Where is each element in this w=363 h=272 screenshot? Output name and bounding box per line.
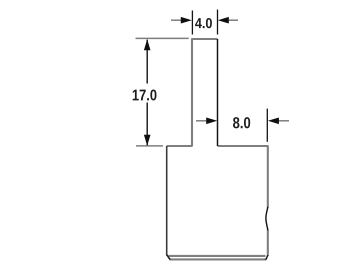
dimension 4.0 : left leader shaft [171, 19, 183, 21]
dimension 4.0 : right arrowhead [218, 17, 229, 24]
base top edge left segment [167, 145, 192, 147]
column right edge [217, 39, 219, 146]
dimension 17.0 : line upper segment [146, 40, 148, 84]
base right edge lower segment [267, 230, 269, 257]
dimension 8.0 : right extension line [266, 109, 268, 142]
column left edge [191, 39, 193, 147]
dimension 4.0 : left extension line [191, 11, 193, 35]
dimension text 4.0 [195, 18, 212, 28]
dimension 8.0 : left arrowhead [206, 118, 217, 125]
dimension 17.0 : bottom arrowhead [144, 135, 151, 146]
dimension 17.0 : bottom extension line [136, 145, 163, 147]
dimension text 17.0 [133, 90, 157, 101]
dimension 17.0 : top arrowhead [144, 39, 151, 50]
base bottom tangent line [168, 255, 265, 257]
dimension 4.0 : right leader shaft [228, 19, 239, 21]
dimension text 8.0 [233, 117, 250, 128]
dimension 17.0 : line lower segment [146, 103, 148, 146]
base right edge upper segment [267, 146, 269, 208]
dimension 8.0 : left leader shaft [196, 120, 207, 122]
base top edge right segment [218, 145, 269, 147]
bottom-right corner chamfer [266, 255, 268, 260]
bottom-left corner chamfer [167, 255, 171, 260]
dimension 4.0 : left arrowhead [181, 17, 192, 24]
column top edge [167, 39, 269, 259]
dimension 4.0 : right extension line [217, 10, 219, 35]
dimension 8.0 : right leader shaft [278, 120, 289, 122]
base left edge [166, 146, 168, 256]
break squiggle on base right edge [266, 207, 268, 230]
base bottom edge [170, 258, 266, 260]
dimension 8.0 : right arrowhead [268, 118, 279, 125]
dimension 17.0 : top extension line [136, 37, 189, 39]
